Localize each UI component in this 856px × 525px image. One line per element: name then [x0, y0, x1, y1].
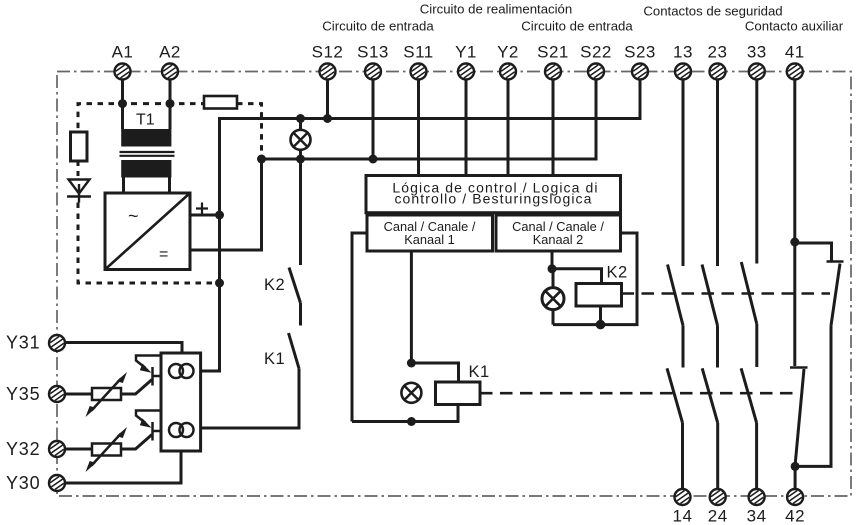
terminal 33	[747, 43, 767, 80]
wire to terminal 24	[716, 423, 719, 489]
contact K1 23-24 lower blade	[702, 368, 718, 423]
wire Y30 to optocoupler	[65, 451, 181, 483]
optocoupler block U3	[161, 353, 201, 451]
terminal Y31	[6, 333, 65, 353]
wire to terminal 34	[755, 423, 758, 489]
wire + rail (node P up and right along top, to S23)	[220, 80, 641, 216]
wire lamp H1 top	[299, 119, 302, 131]
logic block U2	[366, 176, 621, 213]
enclosure border (dash-dot)	[57, 72, 851, 497]
contact K2 13-14 upper blade	[668, 265, 684, 326]
svg-text:K1: K1	[469, 363, 490, 381]
svg-text:33: 33	[747, 43, 767, 62]
wire T1 secondary left to rectifier	[122, 178, 125, 194]
svg-text:Y31: Y31	[6, 333, 40, 353]
dashed wire resistor R1 to node B	[237, 104, 262, 153]
wire terminal 13 down	[682, 80, 685, 267]
wire right NC branch down	[795, 326, 831, 467]
terminal 24	[708, 489, 728, 525]
wire 0V rail to contact K2a	[299, 159, 302, 265]
svg-text:24: 24	[708, 507, 728, 525]
svg-text:Y2: Y2	[497, 43, 519, 62]
svg-text:K2: K2	[264, 276, 285, 294]
terminal 34	[747, 489, 767, 525]
wire 41 node to left NC branch	[793, 242, 796, 366]
wire A1 to T1 primary	[121, 80, 124, 130]
junction S12 on + rail	[323, 114, 332, 123]
terminal A1	[112, 43, 134, 80]
svg-text:~: ~	[128, 206, 139, 226]
contact K2 23-24 upper blade	[702, 265, 718, 326]
terminal Y1	[455, 43, 477, 80]
svg-text:A1: A1	[112, 43, 134, 62]
svg-text:Y32: Y32	[6, 439, 40, 459]
junction K2 bottom node	[596, 320, 606, 330]
wire resistor R4 to transistor Q2	[121, 435, 152, 450]
label + (positive output)	[196, 203, 208, 215]
dashed wire A2 junction to resistor R1	[179, 102, 204, 105]
junction on A1 wire	[118, 99, 127, 108]
wire channel1 bottom output to K1 node	[410, 251, 413, 363]
wire S11 into logic	[417, 80, 420, 176]
svg-text:Contactos de seguridad: Contactos de seguridad	[643, 4, 782, 19]
transistor Q1 (upper input stage)	[136, 356, 161, 386]
junction 41 node	[790, 238, 799, 247]
svg-text:14: 14	[673, 507, 693, 525]
contact K2a (NO, left chain)	[264, 268, 301, 304]
junction lamp H1 top on + rail	[296, 114, 305, 123]
wire S12 to + rail	[326, 80, 329, 119]
resistor R2 (dropper, vertical)	[71, 132, 88, 161]
dashed actuation link K1 to contacts	[480, 392, 795, 395]
svg-text:K1: K1	[264, 350, 285, 368]
contact K1a (NO, left chain)	[264, 333, 299, 369]
wire Y31 to optocoupler	[65, 343, 182, 354]
resistor R3 (variable, Y35)	[86, 372, 128, 417]
wire 0V rail (node B to S22)	[262, 80, 597, 160]
svg-text:Circuito de realimentación: Circuito de realimentación	[420, 2, 572, 17]
resistor R4 (variable, Y32)	[86, 427, 128, 472]
wire channel2 bottom output to K2 node	[551, 251, 554, 269]
dashed wire from A1 junction to left branch	[78, 104, 114, 130]
coupler winding upper (double circles)	[169, 364, 194, 378]
wire between 23 contacts	[716, 326, 719, 368]
dashed wire D1 to bottom rail	[78, 203, 214, 284]
terminal A2	[159, 43, 181, 80]
svg-text:S11: S11	[403, 43, 434, 62]
terminal Y30	[6, 473, 65, 493]
svg-text:=: =	[159, 246, 168, 263]
wire contact K1a to optocoupler	[201, 369, 299, 429]
svg-text:23: 23	[708, 43, 728, 62]
wire to terminal 42	[794, 466, 797, 489]
wire K1 bottom rail	[352, 405, 458, 422]
wire between contacts K2a and K1a	[299, 303, 302, 326]
svg-text:S12: S12	[312, 43, 344, 62]
terminal Y35	[6, 384, 65, 404]
contact K2 41-42 (NC) seat bar	[827, 260, 844, 262]
transistor Q2 (lower input stage)	[136, 411, 161, 441]
junction node B (0V rail start)	[257, 155, 266, 164]
transformer T1	[120, 112, 175, 178]
junction K1 bottom node	[407, 417, 416, 426]
wire Y32 to resistor	[65, 448, 92, 451]
svg-text:Y30: Y30	[6, 473, 40, 493]
wire resistor R3 to transistor Q1	[121, 380, 152, 395]
svg-text:Circuito de entrada: Circuito de entrada	[322, 19, 434, 34]
diode D1 (suppressor)	[67, 180, 91, 203]
svg-text:Contacto auxiliar: Contacto auxiliar	[745, 19, 844, 34]
relay coil K1	[436, 363, 490, 405]
svg-text:41: 41	[785, 43, 805, 62]
wire terminal 33 down	[755, 80, 758, 264]
wire Y2 into logic	[507, 80, 510, 176]
wire K2 coil bottom	[599, 306, 602, 325]
wire to terminal 14	[681, 423, 684, 489]
wire rectifier + output to node P	[190, 214, 220, 217]
channel 2 block	[496, 215, 621, 251]
svg-text:Kanaal 2: Kanaal 2	[533, 232, 584, 247]
wire Y35 to resistor	[65, 393, 92, 396]
wire between 33 contacts	[755, 324, 758, 367]
wire Y1 into logic	[465, 80, 468, 176]
wire rectifier - output to node B	[190, 159, 262, 250]
junction lamp H1 bottom on 0V rail	[296, 155, 305, 164]
svg-text:Y1: Y1	[455, 43, 477, 62]
dashed wire R2 to diode D1	[77, 161, 80, 179]
svg-text:Kanaal 1: Kanaal 1	[404, 232, 455, 247]
lamp H1 (power indicator)	[291, 130, 311, 150]
wire terminal 23 down	[716, 80, 719, 267]
dashed wire between A1 and A2 junctions	[131, 102, 161, 105]
wire channel1 left output	[352, 233, 367, 422]
wire 41 node to right NC branch	[795, 243, 832, 262]
svg-text:Y35: Y35	[6, 384, 40, 404]
svg-text:S22: S22	[580, 43, 612, 62]
wire between 13 contacts	[682, 326, 685, 368]
wire terminal 41 down	[793, 80, 796, 243]
rectifier U1 (AC/DC converter)	[105, 193, 190, 270]
terminal Y2	[497, 43, 519, 80]
resistor R1 (series, horizontal)	[204, 96, 237, 109]
contact K2 41-42 (NC) blade	[831, 264, 840, 326]
channel 1 block	[367, 215, 493, 251]
lamp H2 (K1 indicator)	[401, 383, 421, 403]
svg-text:Circuito de entrada: Circuito de entrada	[521, 19, 633, 34]
wire lamp H1 bottom	[299, 150, 302, 160]
terminal 13	[673, 43, 693, 80]
wire K1 top rail	[411, 363, 458, 382]
junction 42 node	[791, 462, 800, 471]
svg-text:42: 42	[785, 507, 805, 525]
terminal S23	[624, 43, 656, 80]
svg-text:13: 13	[673, 43, 693, 62]
terminal 41	[785, 43, 805, 80]
coupler winding lower (double circles)	[169, 423, 194, 437]
terminal 42	[785, 489, 805, 525]
wire S21 into logic	[552, 80, 555, 176]
svg-text:K2: K2	[607, 264, 628, 282]
wire T1 secondary right to rectifier	[168, 178, 171, 194]
junction S13 on 0V rail	[369, 155, 378, 164]
wire K2 top rail	[552, 269, 602, 284]
junction on A2 wire	[166, 99, 175, 108]
contact K1 33-34 lower blade	[741, 368, 757, 423]
terminal S11	[403, 43, 434, 80]
wire K2 bottom rail	[553, 233, 637, 325]
wire S13 to 0V rail	[372, 80, 375, 160]
contact K1 13-14 lower blade	[667, 368, 683, 423]
svg-text:controllo / Besturingslogica: controllo / Besturingslogica	[394, 190, 592, 206]
junction node P	[215, 211, 224, 220]
wire A2 to T1 primary	[169, 80, 172, 130]
terminal 14	[673, 489, 693, 525]
svg-text:S21: S21	[537, 43, 569, 62]
svg-text:T1: T1	[136, 112, 155, 129]
junction K2 coil top node	[548, 264, 557, 273]
lamp H3 (K2 indicator)	[542, 269, 564, 325]
contact K1 41-42 (NC) seat bar	[790, 366, 808, 368]
terminal S21	[537, 43, 569, 80]
contact K2 33-34 upper blade	[741, 262, 757, 324]
svg-text:34: 34	[747, 507, 767, 525]
junction node P dashed tap	[215, 279, 224, 288]
terminal S13	[357, 43, 389, 80]
wire + rail down to optocoupler	[201, 215, 220, 371]
svg-text:A2: A2	[159, 43, 181, 62]
terminal 23	[708, 43, 728, 80]
terminal S12	[312, 43, 344, 80]
svg-text:S23: S23	[624, 43, 656, 62]
relay coil K2	[576, 264, 628, 307]
terminal S22	[580, 43, 612, 80]
contact K1 41-42 (NC) blade	[795, 369, 804, 464]
dashed actuation link K2 to contacts	[622, 292, 831, 295]
svg-text:S13: S13	[357, 43, 389, 62]
terminal Y32	[6, 439, 65, 459]
junction K1 coil top node	[407, 359, 416, 368]
